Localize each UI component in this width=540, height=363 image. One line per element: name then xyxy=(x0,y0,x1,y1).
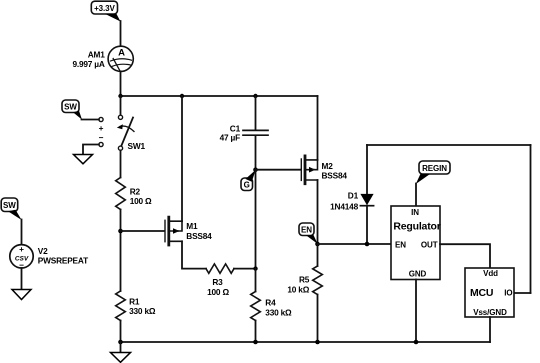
svg-text:+: + xyxy=(99,123,104,133)
svg-text:REGIN: REGIN xyxy=(422,164,447,173)
wire C1 top xyxy=(255,96,257,130)
svg-text:−: − xyxy=(99,133,104,143)
wire ammeter to top rail xyxy=(120,71,122,96)
wire M2 drain to top rail xyxy=(317,96,319,160)
svg-text:9.997 µA: 9.997 µA xyxy=(72,59,104,69)
svg-text:100 Ω: 100 Ω xyxy=(130,196,152,206)
wire M1 drain to top rail xyxy=(181,96,183,221)
wire regulator OUT to MCU Vdd xyxy=(440,244,490,268)
MCU U2 box xyxy=(465,268,514,317)
svg-text:R1: R1 xyxy=(129,297,140,307)
resistor R2 xyxy=(116,178,152,210)
flag SW (V2 source) xyxy=(1,198,21,220)
flag EN xyxy=(299,223,318,244)
ground (switch control) xyxy=(74,155,93,164)
svg-text:BSS84: BSS84 xyxy=(322,171,348,181)
svg-text:MCU: MCU xyxy=(470,287,493,299)
svg-text:IO: IO xyxy=(504,288,512,297)
svg-text:M2: M2 xyxy=(322,161,334,171)
wire R3 to R4 column xyxy=(234,268,256,270)
svg-text:M1: M1 xyxy=(186,221,198,231)
wire +3.3V flag to ammeter xyxy=(120,21,122,46)
wire feedback loop right xyxy=(530,145,532,293)
wire M2 source down to EN node xyxy=(317,180,319,244)
wire G node to M2 gate xyxy=(256,169,302,171)
wire R2 to R1 xyxy=(120,210,122,292)
svg-text:330 kΩ: 330 kΩ xyxy=(129,306,156,316)
wire bottom rail xyxy=(121,341,491,343)
svg-text:D1: D1 xyxy=(348,190,359,200)
transistor M2 xyxy=(301,156,347,184)
wire R5 to bottom rail xyxy=(317,295,319,343)
wire M1 source down xyxy=(182,241,206,268)
wire C1 bottom to G node xyxy=(255,135,257,169)
wire D1 cathode to EN rail xyxy=(366,206,368,244)
resistor R5 xyxy=(287,266,322,295)
svg-text:PWSREPEAT: PWSREPEAT xyxy=(38,255,88,265)
wire G node down to R3/R4 junction xyxy=(255,170,257,269)
capacitor C1 xyxy=(220,123,268,142)
node junction EN at M2/R5 xyxy=(315,242,320,247)
svg-text:R5: R5 xyxy=(299,275,310,285)
svg-text:EN: EN xyxy=(301,226,312,235)
switch SW1 xyxy=(117,115,146,151)
node junction M1 gate xyxy=(118,229,123,234)
svg-text:330 kΩ: 330 kΩ xyxy=(265,307,292,317)
svg-text:SW: SW xyxy=(64,103,77,112)
wire - terminal to ground xyxy=(83,145,99,155)
svg-text:GND: GND xyxy=(409,270,427,279)
svg-text:SW1: SW1 xyxy=(128,141,146,151)
wire EN rail xyxy=(318,243,392,245)
wire top rail xyxy=(121,95,318,97)
wire V2 to ground xyxy=(21,268,23,290)
svg-text:47 µF: 47 µF xyxy=(220,133,241,143)
node junction top rail at C1 column xyxy=(253,94,257,98)
svg-text:Vdd: Vdd xyxy=(483,269,498,278)
svg-text:Regulator: Regulator xyxy=(393,220,440,232)
wire R4 to bottom rail xyxy=(255,321,257,343)
node junction D1/EN xyxy=(365,242,370,247)
wire switch to R2 xyxy=(120,150,122,177)
svg-text:R2: R2 xyxy=(130,186,141,196)
switch control - terminal xyxy=(99,133,104,147)
wire EN node to R5 xyxy=(317,244,319,266)
flag G xyxy=(241,170,256,191)
resistor R3 xyxy=(206,264,234,297)
ground (V2) xyxy=(12,290,31,300)
svg-text:BSS84: BSS84 xyxy=(186,231,212,241)
diode D1 xyxy=(330,145,373,212)
source V2 xyxy=(10,244,88,270)
svg-text:10 kΩ: 10 kΩ xyxy=(287,285,309,295)
resistor R1 xyxy=(116,291,156,321)
resistor R4 xyxy=(251,292,292,321)
svg-text:R3: R3 xyxy=(212,277,223,287)
node junction bottom rail R5 xyxy=(315,340,320,345)
svg-text:+3.3V: +3.3V xyxy=(94,4,115,13)
node G junction xyxy=(253,167,258,172)
node junction R3/R4 xyxy=(253,266,257,270)
node junction bottom rail R4 xyxy=(253,340,258,345)
node junction bottom rail regulator GND xyxy=(414,340,419,345)
svg-text:SW: SW xyxy=(3,201,16,210)
svg-text:G: G xyxy=(244,181,250,190)
wire M1 gate xyxy=(121,230,165,232)
wire top rail to switch xyxy=(120,96,122,115)
node junction top rail at M1 drain column xyxy=(180,94,184,98)
svg-text:R4: R4 xyxy=(265,298,276,308)
svg-text:Vss/GND: Vss/GND xyxy=(473,308,507,317)
node junction top rail at switch column xyxy=(118,94,122,98)
svg-text:OUT: OUT xyxy=(421,240,438,249)
power flag +3.3V xyxy=(91,1,120,21)
wire feedback loop to MCU IO xyxy=(514,292,531,294)
regulator U1 box xyxy=(391,206,441,280)
svg-text:100 Ω: 100 Ω xyxy=(207,287,229,297)
svg-text:1N4148: 1N4148 xyxy=(330,202,358,212)
wire R1 bottom xyxy=(120,321,122,343)
wire SW flag to V2 xyxy=(21,220,23,245)
switch control + terminal xyxy=(99,117,104,133)
ammeter AM1 xyxy=(72,46,133,71)
svg-text:EN: EN xyxy=(395,240,406,249)
wire REGIN to regulator IN xyxy=(415,184,417,207)
wire + terminal to SW flag xyxy=(82,119,99,121)
wire junction to R4 xyxy=(255,269,257,292)
svg-text:AM1: AM1 xyxy=(88,49,106,59)
flag REGIN xyxy=(416,161,450,184)
wire MCU Vss to bottom rail xyxy=(489,317,491,342)
transistor M1 xyxy=(165,217,212,245)
wire regulator GND to bottom rail xyxy=(415,280,417,343)
node junction bottom rail R1/ground xyxy=(118,340,123,345)
ground (main, bottom rail) xyxy=(111,342,131,362)
flag SW (switch control) xyxy=(62,100,82,120)
svg-text:+: + xyxy=(19,244,24,254)
svg-text:A: A xyxy=(118,47,125,58)
svg-text:IN: IN xyxy=(411,208,419,217)
wire feedback loop top xyxy=(367,144,531,146)
